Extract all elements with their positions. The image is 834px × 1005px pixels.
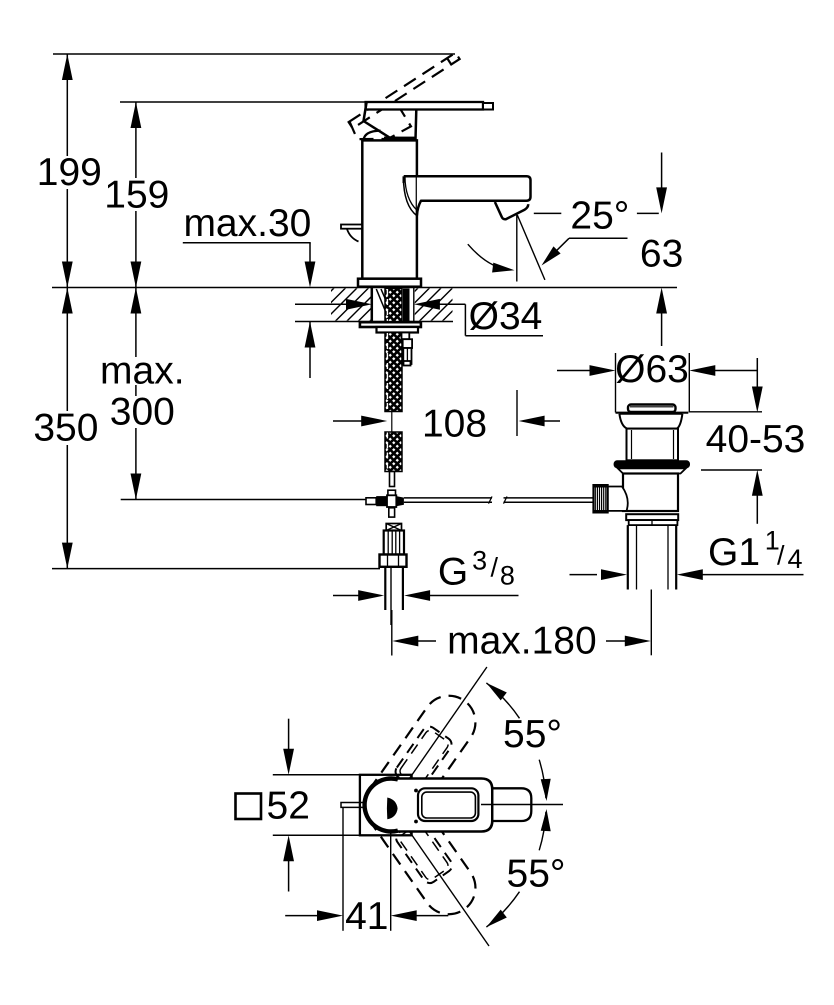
svg-text:108: 108 [422,402,487,445]
counter top reference line [52,287,677,289]
dimension line dia34 right [438,303,466,305]
extension line top of lever (159) [120,101,367,103]
cross fitting top stub [388,490,396,495]
pop-up linkage rod right part [504,497,594,499]
dimension line 41 right [415,915,449,917]
dimension line 350 [66,445,68,569]
max.30 lower line [309,322,311,379]
40-53 top stub [690,411,762,413]
dimension line 52 bottom [288,858,290,892]
dimension line G1-1/4 right [701,574,804,576]
63 arrow up [656,288,667,314]
svg-text:300: 300 [110,391,175,434]
dimension line dia63 right [713,370,757,372]
25deg left stub [534,212,562,214]
max.30 arrow up [305,322,316,348]
max180 arrow left [392,636,418,647]
dimension line max.300 [135,428,137,500]
handle cap thick arc [365,778,398,831]
dimension line G1-1/4 left [570,574,598,576]
stream reference vertical [516,215,518,282]
rod break tick [489,497,493,504]
spout left edge [403,176,405,183]
square symbol [236,794,262,820]
G3/8 tail pipe [384,567,386,610]
dimension line 63 top [661,153,663,192]
mounting nut [377,327,419,333]
svg-text:55°: 55° [503,713,562,756]
mounting hole right edge [413,288,415,322]
dimension line 63 bottom [661,307,663,346]
svg-text:3: 3 [472,546,487,576]
52 arrow up [283,835,294,861]
extension line pop-up rod level (max.300) [121,499,366,501]
braided hose section 2 [385,333,402,412]
dashed handle rotated upper [354,685,486,842]
55deg arrow upper-outer [486,683,506,701]
cross fitting left block [376,496,387,506]
counter bottom line [295,321,453,323]
handle pivot body [364,102,417,140]
svg-text:350: 350 [33,407,98,450]
pop-up rod diagonal 2 [381,289,391,311]
horizontal centerline top view [481,804,563,806]
handle (top view) [365,779,493,832]
svg-text:41: 41 [345,895,388,938]
41 arrow left [317,910,343,921]
55deg arc upper b [539,760,546,799]
faucet centerline bottom [391,610,393,656]
top view square base [360,775,412,836]
faucet body [362,140,417,278]
svg-text:/: / [777,540,785,570]
dia34 frame vertical [464,304,466,335]
dia34 arrow left [346,299,372,310]
spout [404,176,531,215]
63 arrow down [656,187,667,213]
drain washer [618,468,686,473]
dia34 frame horizontal [465,335,543,337]
52 extension top [273,774,360,776]
drain knob boss [608,487,628,511]
arrow 159 bottom [131,262,142,288]
drain O-ring [614,460,690,468]
dia63 extension right [688,353,690,413]
dark collar under handle [384,137,417,141]
drain upper body [627,429,679,461]
svg-text:55°: 55° [507,853,566,896]
svg-text:Ø63: Ø63 [615,348,689,391]
max.30 underline [183,242,311,244]
spout stub (top view) [492,788,531,821]
svg-text:63: 63 [640,233,683,276]
svg-text:max.30: max.30 [183,202,311,245]
dia63 arrow right [689,365,715,376]
dimension line 108 left [333,420,363,422]
pop-up rod clamp fitting [402,333,410,340]
arrow max300 top [131,288,142,314]
mounting stud [403,289,410,323]
svg-text:52: 52 [267,785,310,828]
dimension line dia34 left [295,303,348,305]
extension line top of handle (199) [53,53,455,55]
40-53 arrow down [752,387,763,413]
svg-text:G: G [438,551,468,594]
cartridge mark [387,798,398,820]
washer [360,322,421,327]
extension line bottom (350) [52,568,380,570]
cross fitting right wedge [396,496,404,506]
arrow 199 bottom [62,262,73,288]
55deg diagonal lower [391,805,489,946]
max180 arrow right [625,636,651,647]
dimension line 199 [66,54,68,156]
arrow 350 top [62,288,73,314]
dashed handle rotated lower [354,768,486,925]
dimension line 108 right [543,420,560,422]
drain valve body [623,474,678,512]
55deg arc upper a [486,683,519,718]
40-53 bottom stub [701,469,762,471]
counter hatching right [384,288,487,322]
stream 25 deg line [517,215,545,280]
dimension line 159 [135,102,137,178]
dashed raised handle (open position) [347,52,476,154]
arrow 199 top [62,54,73,80]
arrow 159 top [131,102,142,128]
drain tail pipe [627,525,629,589]
arrow max300 bottom [131,474,142,500]
pop-up rod (top view) [341,803,368,808]
G3/8 hose coupling cross block [386,524,401,531]
G3/8 hex nut [380,555,407,567]
svg-text:40-53: 40-53 [706,418,806,461]
svg-text:/: / [490,553,498,583]
25deg leader [569,237,628,239]
svg-text:4: 4 [787,544,802,574]
G1-1/4 arrow right [677,569,703,580]
hose centerline in break [391,412,393,432]
cross fitting left ferrule [366,498,376,505]
41 extension right [390,832,392,931]
pop-up rod knob [341,225,362,229]
dimension line 52 top [288,719,290,752]
lever outline (top view) [418,788,478,821]
G3/8 arrow left [358,590,384,601]
G3/8 arrow right [404,590,430,601]
arrow 350 bottom [62,543,73,569]
drain locknut [626,514,678,520]
55deg arc lower b [486,892,519,927]
dimension line 40-53 [756,358,758,390]
max.30 arrow down [305,262,316,288]
rod break tick 2 [504,497,508,504]
hose end tube [390,472,395,487]
flange top line [616,412,689,414]
svg-text:Ø34: Ø34 [469,295,543,338]
counter hatching left [300,288,403,322]
41 extension left [342,807,344,930]
25deg leader arrow [542,246,561,265]
52 extension bottom [273,834,360,836]
55deg diagonal upper [391,667,487,805]
svg-text:159: 159 [104,174,169,217]
dimension line 41 left [285,915,319,917]
dia63 arrow left [590,365,616,376]
41 arrow right [391,910,417,921]
svg-text:199: 199 [37,151,102,194]
base plinth [358,279,421,287]
handle skirt arc [364,131,381,140]
G1-1/4 arrow left [601,569,627,580]
dimension line G3/8 left [333,595,361,597]
55deg arc lower a [539,812,546,851]
cross fitting bottom stub [389,508,395,517]
braided hose section 1 [385,289,402,323]
pop-up rod diagonal 1 [376,289,387,315]
drain knurled knob [593,485,607,513]
aerator (25 deg outlet) [495,202,528,219]
drain centerline [650,590,652,656]
braided hose section 3 [385,432,402,472]
dia63 extension left [615,353,617,413]
dimension line G3/8 right [428,595,518,597]
stream arc arrow [468,244,509,270]
max.30 drop line [309,243,311,268]
cross fitting body [387,495,396,507]
drain cap [628,405,676,413]
svg-text:25°: 25° [570,195,629,238]
55deg arrow lower-outer [486,910,506,928]
handle lever (closed position) [366,102,483,110]
52 arrow down [283,749,294,775]
svg-text:G1: G1 [708,531,760,574]
svg-text:max.180: max.180 [447,620,597,663]
40-53 arrow up [752,470,763,496]
dia34 arrow right [414,299,440,310]
dimension line dia63 left [557,370,590,372]
pop-up linkage rod left part [404,497,492,499]
G3/8 knurled sleeve [384,531,404,555]
svg-text:8: 8 [500,561,515,591]
108 extension line [516,390,518,436]
55deg arrow upper-inner [541,779,551,801]
mounting hole left edge [371,288,374,322]
25deg right stub [637,212,659,214]
svg-text:max.: max. [100,350,185,393]
55deg arrow lower-inner [541,809,551,831]
spout-body junction crescent [403,177,417,216]
